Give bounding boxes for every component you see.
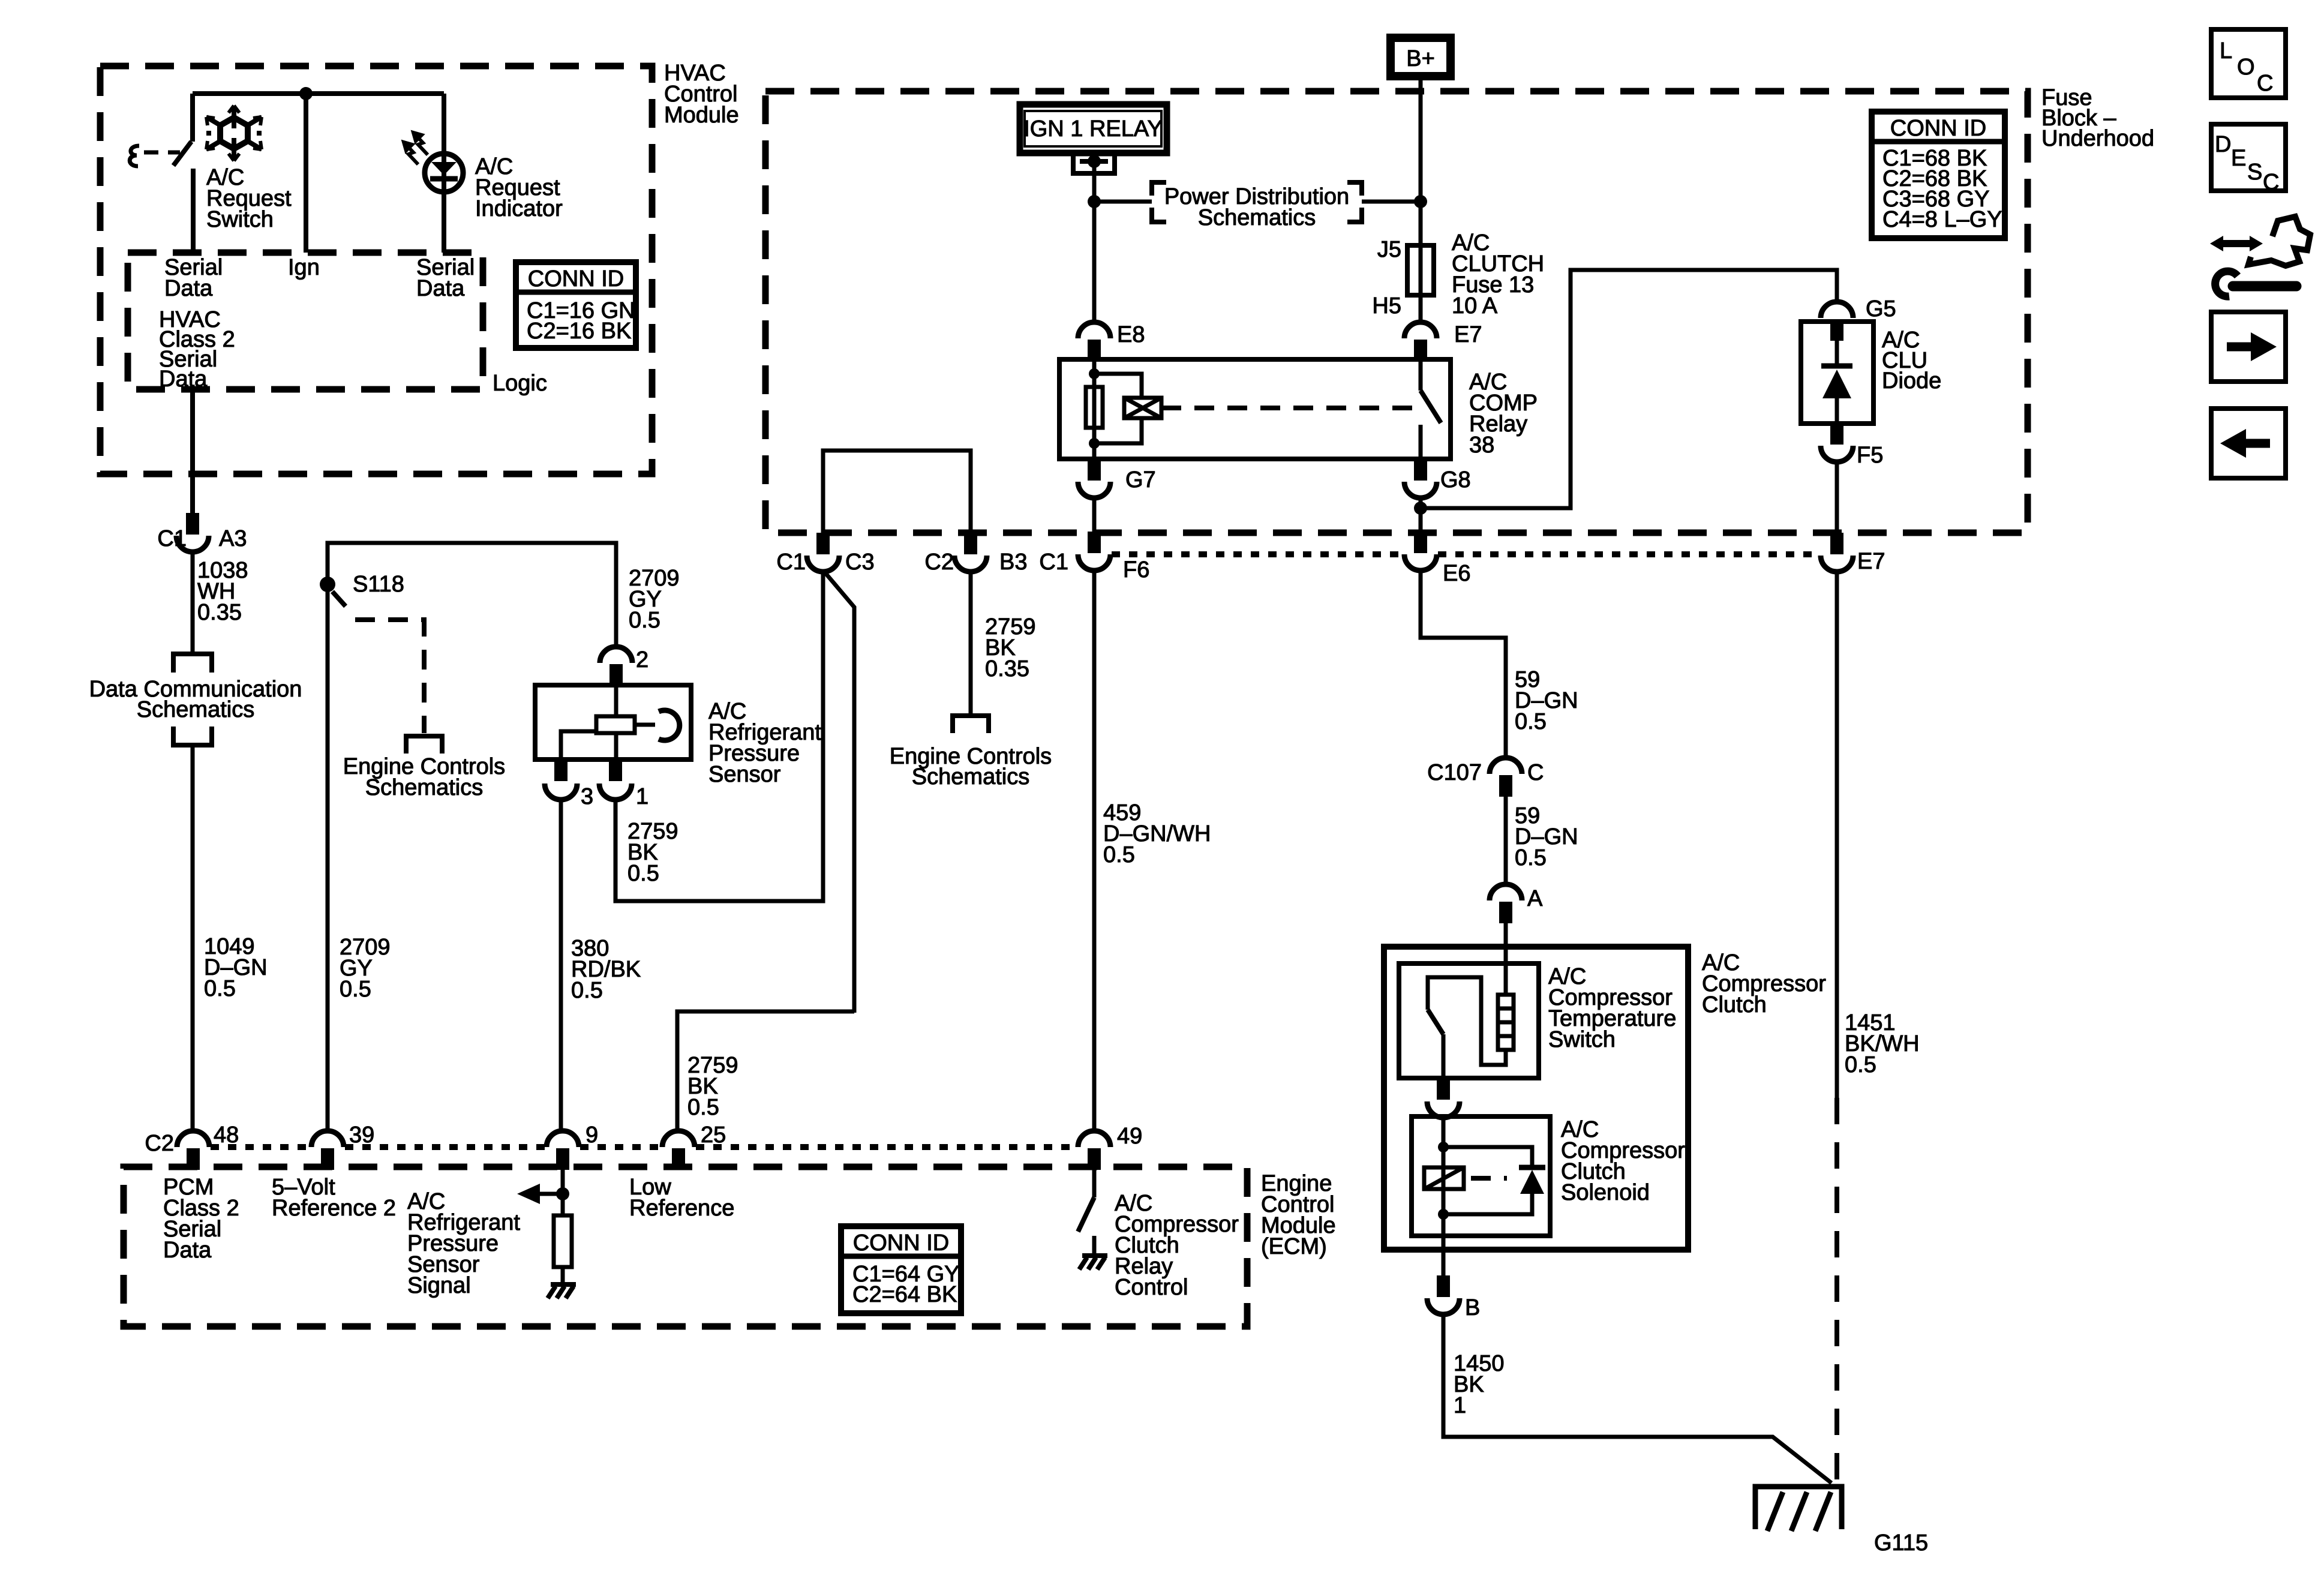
svg-text:E6: E6 [1443,561,1470,586]
wire 459 F6 to 49 [1092,572,1097,1131]
solenoid junction dots [1438,1142,1449,1152]
wire bracket to B+ feed [1362,200,1421,204]
solenoid coil wire [1442,1147,1446,1236]
svg-text:3: 3 [581,784,593,809]
wire 1450 BK [1443,1314,1831,1483]
svg-text:39: 39 [349,1122,374,1148]
svg-text:C3: C3 [845,550,875,575]
junction dot pin9 [556,1187,569,1200]
wire G7 to C1/F6 [1092,498,1097,532]
ground (ECM internal) [548,1284,576,1298]
connector 49 [1078,1131,1110,1147]
connector C1 A3 [186,513,199,535]
svg-text:S118: S118 [353,572,404,597]
svg-text:F5: F5 [1857,443,1883,468]
wire serial data down from logic [190,389,195,513]
relay coil wire [1092,361,1097,459]
svg-text:E7: E7 [1454,322,1482,347]
wire C3 diagonal branch [824,572,854,1013]
IGN 1 relay feed symbol [1071,154,1117,173]
wire Ign [304,94,308,253]
svg-text:C2: C2 [145,1131,174,1156]
connector pin 2 [600,647,632,663]
IGN 1 RELAY box [1020,104,1167,153]
A/C request switch top stub [190,94,195,142]
wire pin9 internal [561,1170,565,1215]
svg-text:S: S [2247,160,2262,185]
CONN ID table (fuse block) [1872,112,2005,238]
svg-text:CONN ID: CONN ID [853,1230,949,1256]
icon DESC box [2211,124,2286,195]
bracket power distribution (right) [1347,182,1362,222]
svg-text:E7: E7 [1857,549,1885,574]
fuse A/C CLUTCH Fuse 13 J5/H5 [1407,245,1434,295]
wire resistor to ground [561,1267,565,1284]
svg-text:Logic: Logic [493,371,547,396]
connector row dotted line (ECM) [211,1144,1077,1150]
svg-text:O: O [2237,55,2255,80]
wire diode branch [1421,270,1837,508]
svg-text:A: A [1527,886,1543,911]
temp switch output wire [1442,1034,1446,1078]
connector F5 [1830,424,1843,445]
wire F5 to E7 [1835,462,1839,533]
switch actuator hook [130,146,139,166]
relay coil junction dots [1089,368,1100,379]
connector E8 [1078,322,1110,338]
snowflake icon A/C [206,106,262,161]
svg-text:E: E [2231,146,2246,171]
svg-text:EngineControlModule(ECM): EngineControlModule(ECM) [1261,1171,1336,1259]
connector G8 [1414,459,1427,481]
wire to indicator [442,94,446,253]
wire 380 down [559,800,563,1131]
ground (relay control) [1079,1256,1107,1269]
ground stub [1092,1236,1097,1255]
connector G5 [1821,302,1853,318]
svg-text:IGN 1 RELAY: IGN 1 RELAY [1023,116,1163,142]
svg-text:C: C [2257,71,2273,96]
CONN ID table (HVAC) [516,262,636,348]
svg-text:H5: H5 [1372,293,1401,319]
icon forward arrow box [2211,312,2286,382]
svg-text:D: D [2215,132,2231,157]
ECM dashed box [124,1167,1247,1326]
bracket power distribution (left) [1152,182,1166,222]
LED emission arrows [404,133,428,164]
svg-text:B: B [1465,1295,1480,1320]
A/C request switch lower contact wire [191,169,196,253]
wire E6 to C107 [1421,572,1506,758]
relay actuator dashed link [1161,406,1418,410]
icon back arrow box [2211,409,2286,478]
wire A into compressor clutch [1504,923,1508,995]
harness dotted line (engine) [1112,551,1819,557]
wire 1038 [191,552,195,652]
svg-text:C2=64 BK: C2=64 BK [852,1282,957,1307]
svg-text:CONN ID: CONN ID [528,266,624,292]
junction node Ign [299,87,313,100]
connector G7 [1088,459,1101,481]
A/C COMP relay box [1059,359,1451,459]
svg-text:C1: C1 [1039,550,1068,575]
svg-text:25: 25 [701,1122,726,1148]
junction node B+ feed [1414,195,1427,208]
temp switch internal path [1428,977,1506,1065]
wire solenoid out [1442,1236,1446,1275]
off-page bracket Engine Controls (right) [950,716,991,733]
connector temp switch to solenoid [1437,1078,1450,1100]
LED diode triangle [431,162,457,175]
svg-text:Ign: Ign [288,255,320,280]
solenoid dashed link [1471,1176,1507,1181]
switch blade (relay control driver) [1078,1197,1094,1232]
connector 39 [311,1131,344,1147]
fuse block dashed box [765,91,2028,533]
connector pin 1 [609,760,622,781]
icon LOC box [2211,29,2286,98]
relay coil element [1086,387,1103,428]
A/C CLU diode box [1801,322,1873,424]
off-page bracket Data Communication (top) [171,654,214,673]
svg-text:G115: G115 [1874,1530,1928,1556]
relay actuator X box [1124,398,1161,418]
off-page bracket Engine Controls (left) [404,736,445,754]
wire 2709 riser [328,543,616,647]
svg-text:1: 1 [636,784,648,809]
solenoid box [1412,1116,1550,1236]
connector E7 (harness) [1830,533,1843,554]
diode element [1835,341,1839,424]
signal arrow [538,1192,563,1196]
svg-text:G8: G8 [1440,467,1471,493]
A/C request indicator LED circle [425,154,463,192]
HVAC Control Module dashed box [100,66,652,474]
off-page bracket Data Communication (bottom) [171,727,214,745]
wire: top horizontal bus in HVAC module [193,91,444,96]
connector C2 B3 [964,533,977,554]
resistor (ECM internal) [554,1215,572,1267]
wire 2759 to pin 25 [677,1011,854,1131]
svg-text:2: 2 [636,647,648,673]
svg-text:C2=16 BK: C2=16 BK [527,319,631,344]
relay coil loop to actuator [1094,374,1142,443]
svg-text:49: 49 [1117,1124,1142,1149]
A/C compressor clutch outer box [1384,947,1688,1250]
connector 25 [662,1131,695,1147]
wire pin1 loop to C1 [615,572,823,901]
connector C1 C3 [816,533,830,554]
svg-text:J5: J5 [1377,237,1401,262]
CONN ID table (ECM) [841,1226,961,1313]
svg-text:C1: C1 [776,550,806,575]
svg-text:C: C [1527,760,1544,785]
wire to power distribution bracket [1094,200,1152,204]
solenoid coil element [1424,1167,1464,1189]
connector 9 [547,1131,579,1147]
svg-text:9: 9 [585,1122,598,1148]
connector A [1490,884,1522,900]
svg-text:Engine ControlsSchematics: Engine ControlsSchematics [890,744,1052,789]
svg-text:G5: G5 [1866,296,1896,322]
switch actuator dashes [144,151,180,155]
svg-text:F6: F6 [1123,557,1149,583]
LED cathode bar [430,176,458,182]
svg-text:A3: A3 [219,526,247,551]
svg-text:B3: B3 [999,550,1027,575]
wire G8 down [1419,498,1423,532]
connector E7 (relay) [1404,322,1437,338]
wire B+ down to fuse [1419,76,1423,245]
wire 1049 [191,748,195,1131]
relay switch [1419,359,1423,391]
connector C2 48 [177,1131,209,1147]
icon adjust (wrench) [2210,217,2310,296]
connector pin 3 [554,760,568,781]
svg-text:B+: B+ [1406,46,1435,71]
svg-text:CONN ID: CONN ID [1890,116,1986,141]
connector E6 [1414,532,1427,553]
svg-text:C: C [2263,170,2279,195]
wire 49 internal [1092,1170,1097,1197]
thermistor segmented bar [1498,995,1514,1050]
connector C1 F6 [1088,532,1101,553]
ground G115 [1755,1487,1842,1531]
sensor C element [659,710,680,740]
temp switch blade [1428,1010,1443,1034]
svg-text:E8: E8 [1117,322,1145,347]
wire 2709 down [326,590,330,1131]
wire C107 to A [1504,797,1508,884]
B+ terminal box [1391,38,1451,76]
connector B [1437,1275,1450,1297]
solenoid diode loop [1443,1147,1532,1214]
wire into solenoid [1442,1117,1446,1147]
wire 2759 BK 0.35 down from B3 [969,572,973,714]
svg-text:C107: C107 [1427,760,1482,785]
wire 1451 BK/WH [1835,572,1839,1098]
svg-text:L: L [2220,38,2232,64]
svg-text:G7: G7 [1125,467,1156,493]
sensor box [535,685,691,760]
wire bridge above C1/C3 to C2/B3 [823,451,971,533]
connector C107 C [1490,758,1522,774]
dashed splice branch [332,592,349,610]
svg-text:C1: C1 [157,526,187,551]
sensor internal wires [614,686,618,760]
sensor element resistor [596,716,635,733]
solenoid diode [1519,1165,1545,1170]
junction node ign feed [1088,195,1101,208]
wire fuse to E7 [1419,295,1423,322]
svg-text:48: 48 [214,1122,239,1148]
svg-text:C4=8 L–GY: C4=8 L–GY [1882,207,2002,232]
splice S118 [320,577,335,592]
temperature switch box [1399,963,1539,1078]
wire ign relay down [1092,161,1097,322]
A/C request switch blade [173,142,191,166]
svg-text:C2: C2 [924,550,954,575]
Logic dashed box [128,253,483,389]
svg-text:Engine ControlsSchematics: Engine ControlsSchematics [343,754,505,800]
junction node diode branch [1414,502,1427,515]
